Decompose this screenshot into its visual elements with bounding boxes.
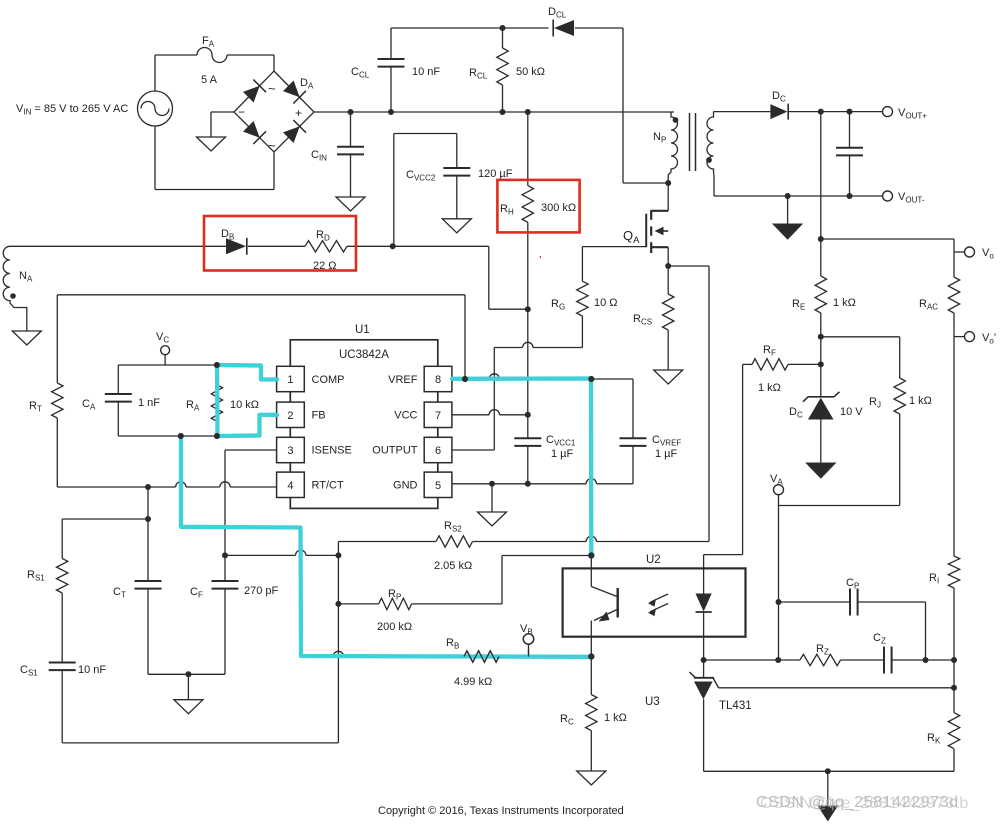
bridge diode bottom-left bbox=[243, 121, 260, 138]
highlight VREF path bbox=[452, 379, 591, 557]
terminal VA bbox=[774, 485, 784, 495]
svg-text:Copyright © 2016, Texas Instru: Copyright © 2016, Texas Instruments Inco… bbox=[378, 805, 624, 817]
resistor RD bbox=[305, 241, 347, 252]
resistor RB bbox=[464, 651, 499, 662]
svg-text:10 V: 10 V bbox=[840, 406, 863, 418]
svg-text:1 µF: 1 µF bbox=[551, 448, 574, 460]
QA body arrow bbox=[663, 230, 669, 232]
wire output to RG bbox=[494, 347, 522, 349]
TL431 U3 bbox=[703, 660, 705, 678]
wire DC to VOUT+ bbox=[789, 111, 883, 113]
capacitor CVCC2 branch bbox=[393, 134, 395, 247]
ground bridge bbox=[197, 137, 226, 151]
wire CA RA bottom bbox=[118, 435, 259, 437]
diode DCL bbox=[554, 20, 574, 36]
highlight RA bbox=[215, 365, 220, 436]
wire FB divider down bbox=[180, 436, 182, 527]
svg-text:5 A: 5 A bbox=[201, 74, 218, 86]
transformer primary NP bbox=[668, 112, 677, 183]
stub Vo bbox=[954, 251, 965, 253]
svg-text:8: 8 bbox=[435, 374, 441, 386]
opto transistor bbox=[590, 568, 592, 586]
U1 pin 7 box bbox=[424, 402, 452, 427]
wire output sense bbox=[820, 112, 822, 239]
svg-text:~: ~ bbox=[268, 81, 276, 96]
svg-text:2.05 kΩ: 2.05 kΩ bbox=[434, 560, 472, 572]
QA gate bar bbox=[645, 214, 647, 248]
svg-text:3: 3 bbox=[287, 445, 293, 457]
wire RS1 top bbox=[62, 518, 148, 520]
bridge diode top-right bbox=[283, 81, 300, 98]
svg-text:VIN = 85 V to 265 V AC: VIN = 85 V to 265 V AC bbox=[16, 103, 128, 117]
winding NA bbox=[3, 246, 27, 331]
wire pin2 link bbox=[259, 414, 276, 416]
resistor RC bbox=[590, 657, 592, 695]
QA source bbox=[652, 246, 668, 248]
wire RZ rail bbox=[704, 659, 800, 661]
svg-text:RT/CT: RT/CT bbox=[312, 480, 344, 492]
opto light arrows bbox=[650, 594, 668, 602]
U1 pin 1 box bbox=[277, 366, 305, 391]
svg-text:GND: GND bbox=[393, 480, 418, 492]
ground CIN bbox=[336, 197, 365, 211]
capacitor output bbox=[849, 112, 851, 148]
U1 pin 4 box bbox=[277, 472, 305, 497]
diode DC bbox=[770, 104, 787, 119]
node RE bottom bbox=[818, 334, 824, 340]
resistor RJ bbox=[899, 337, 901, 378]
opto LED anode wire bbox=[742, 364, 744, 554]
highlight FB path bbox=[181, 436, 591, 657]
QA channel dashes bbox=[650, 210, 652, 220]
svg-text:‚: ‚ bbox=[539, 248, 541, 260]
zener DC 10V bbox=[808, 396, 834, 398]
transformer secondary bbox=[707, 112, 714, 196]
resistor RCL bbox=[502, 28, 504, 48]
capacitor CZ bbox=[883, 647, 885, 674]
svg-text:~: ~ bbox=[268, 138, 276, 153]
svg-text:1 nF: 1 nF bbox=[138, 397, 160, 409]
capacitor CA bbox=[117, 365, 119, 394]
ground CT CF bbox=[174, 700, 203, 714]
wire opto emitter bbox=[590, 637, 592, 657]
capacitor CCL bbox=[390, 28, 392, 59]
ground RC bbox=[577, 771, 606, 785]
svg-text:200 kΩ: 200 kΩ bbox=[377, 621, 412, 633]
wire QA source right bbox=[668, 265, 709, 267]
wire LED cathode down bbox=[703, 637, 705, 660]
svg-text:TL431: TL431 bbox=[719, 700, 752, 712]
capacitor CT bbox=[147, 487, 149, 519]
wire bridge bottom loop bbox=[273, 152, 275, 190]
wire bridge left to ground bbox=[211, 111, 234, 113]
wire HV rail bbox=[314, 111, 674, 113]
svg-text:50 kΩ: 50 kΩ bbox=[516, 66, 545, 78]
wire bottom right rail bbox=[704, 770, 954, 772]
wire ISENSE node bbox=[225, 554, 296, 556]
bridge diode bottom-right bbox=[283, 126, 300, 143]
wire VA node bbox=[779, 505, 900, 507]
terminal VB redraw bbox=[528, 649, 530, 657]
QA drain bbox=[667, 183, 669, 211]
optocoupler U2 box bbox=[563, 568, 746, 636]
ground bottom bbox=[827, 771, 829, 806]
svg-text:1 kΩ: 1 kΩ bbox=[604, 712, 627, 724]
resistor RS1 bbox=[61, 519, 63, 559]
red annotation box RH bbox=[497, 180, 579, 233]
stub Vo2 bbox=[954, 336, 965, 338]
resistor RF bbox=[743, 363, 752, 365]
svg-text:10 nF: 10 nF bbox=[78, 664, 106, 676]
highlight junction dots bbox=[214, 362, 220, 368]
wire fuse to bridge bbox=[227, 54, 274, 56]
ground RCS bbox=[654, 370, 683, 384]
bridge diode top-left bbox=[243, 86, 260, 103]
capacitor CVREF bbox=[632, 379, 634, 438]
terminal VC bbox=[161, 346, 170, 355]
resistor RH bbox=[527, 112, 529, 186]
resistor RT bbox=[56, 295, 58, 383]
wire RT/CT pin4 bbox=[57, 486, 175, 488]
wire snubber top rail bbox=[391, 27, 549, 29]
svg-text:2: 2 bbox=[287, 410, 293, 422]
highlight pin1 branch bbox=[217, 365, 277, 380]
svg-text:OSSIN@ice_2581442973tb: OSSIN@ice_2581442973tb bbox=[760, 795, 969, 812]
svg-text:U3: U3 bbox=[645, 696, 660, 708]
wire pin1 link bbox=[261, 365, 263, 379]
U1 pin 6 box bbox=[424, 437, 452, 462]
svg-text:1 kΩ: 1 kΩ bbox=[758, 382, 781, 394]
opto LED bbox=[703, 568, 705, 593]
wire DCL to transformer bbox=[575, 27, 623, 29]
svg-text:4: 4 bbox=[287, 480, 293, 492]
svg-text:−: − bbox=[238, 105, 245, 119]
resistor RB redraw bbox=[464, 651, 499, 662]
wire RT top bbox=[57, 294, 465, 296]
terminal VOUT- bbox=[883, 191, 893, 201]
svg-text:U1: U1 bbox=[355, 324, 370, 336]
wire VCC pin7 bbox=[452, 414, 489, 416]
wire zener top bbox=[820, 337, 822, 397]
primary phase dot bbox=[673, 117, 679, 123]
svg-text:10 Ω: 10 Ω bbox=[594, 297, 618, 309]
svg-text:OUTPUT: OUTPUT bbox=[372, 445, 418, 457]
svg-text:6: 6 bbox=[435, 445, 441, 457]
AC source VIN bbox=[138, 91, 173, 126]
resistor RA bbox=[216, 365, 218, 385]
resistor RK bbox=[948, 713, 959, 749]
red annotation box DB RD bbox=[204, 216, 356, 271]
resistor RCS bbox=[667, 266, 669, 294]
capacitor CVCC1 bbox=[527, 415, 529, 439]
svg-text:10 kΩ: 10 kΩ bbox=[230, 399, 259, 411]
wire ISENSE pin3 bbox=[225, 449, 277, 451]
svg-text:+: + bbox=[295, 106, 302, 120]
wire RH down to VCC bbox=[527, 309, 529, 415]
NA phase dot bbox=[10, 293, 16, 299]
ground zener bbox=[806, 463, 835, 478]
wire VOUT- rail bbox=[714, 195, 883, 197]
svg-text:ISENSE: ISENSE bbox=[312, 445, 352, 457]
svg-text:1 kΩ: 1 kΩ bbox=[833, 297, 856, 309]
svg-text:VCC: VCC bbox=[394, 410, 417, 422]
svg-text:Vo’: Vo’ bbox=[982, 332, 996, 346]
ground output bbox=[787, 196, 789, 224]
U1 pin 8 box bbox=[424, 366, 452, 391]
svg-text:1 µF: 1 µF bbox=[655, 448, 678, 460]
bridge DA diamond bbox=[234, 71, 314, 152]
wire CP branch bbox=[776, 599, 782, 605]
resistor RG bbox=[581, 247, 583, 282]
fuse FA bbox=[197, 48, 227, 63]
wire RP bbox=[335, 601, 341, 607]
TL431 ref wire bbox=[719, 687, 955, 689]
wire CA RA top bbox=[118, 364, 262, 366]
ground U1 bbox=[491, 484, 493, 512]
svg-text:UC3842A: UC3842A bbox=[339, 349, 389, 361]
svg-text:COMP: COMP bbox=[312, 374, 345, 386]
terminal VB bbox=[523, 634, 533, 644]
opto collector wire bbox=[590, 379, 592, 568]
QA gate wire bbox=[582, 246, 646, 248]
svg-text:VREF: VREF bbox=[388, 374, 418, 386]
wire zener to ground bbox=[820, 420, 822, 464]
wire GND pin5 bbox=[452, 483, 586, 485]
wire VA down bbox=[778, 506, 780, 661]
wire bottom left rail bbox=[62, 742, 338, 744]
transformer core bbox=[689, 113, 691, 171]
resistor RI bbox=[948, 556, 959, 588]
wire AC top to fuse bbox=[154, 55, 156, 91]
svg-text:10 nF: 10 nF bbox=[412, 66, 440, 78]
U1 pin 5 box bbox=[424, 472, 452, 497]
svg-text:300 kΩ: 300 kΩ bbox=[541, 202, 576, 214]
capacitor CIN bbox=[350, 112, 352, 147]
svg-text:1 kΩ: 1 kΩ bbox=[909, 395, 932, 407]
wire CT CF ground bbox=[148, 673, 225, 675]
diode DB bbox=[226, 238, 246, 254]
wire RS2 bbox=[337, 542, 339, 556]
highlight pin2 branch bbox=[216, 415, 277, 436]
wire VREF bbox=[452, 378, 489, 380]
svg-text:1: 1 bbox=[287, 374, 293, 386]
svg-text:5: 5 bbox=[435, 480, 441, 492]
wire RD to VCC feed bbox=[347, 245, 489, 247]
svg-text:4.99 kΩ: 4.99 kΩ bbox=[454, 676, 492, 688]
capacitor CF bbox=[224, 555, 226, 581]
op-amp U1 body bbox=[290, 340, 438, 509]
terminal Vo bbox=[965, 247, 975, 257]
resistor RAC bbox=[948, 277, 959, 313]
wire DB to RD bbox=[248, 245, 305, 247]
svg-text:270 pF: 270 pF bbox=[244, 585, 279, 597]
svg-text:FB: FB bbox=[312, 410, 326, 422]
U1 pin 2 box bbox=[277, 402, 305, 427]
wire secondary to DC bbox=[714, 111, 771, 113]
svg-text:U2: U2 bbox=[646, 554, 661, 566]
capacitor CS1 bbox=[49, 662, 76, 664]
svg-text:7: 7 bbox=[435, 410, 441, 422]
wire RB bbox=[301, 656, 334, 658]
U1 pin 3 box bbox=[277, 437, 305, 462]
terminal Vo2 bbox=[965, 332, 975, 342]
wire RI to RK bbox=[953, 660, 955, 713]
resistor RE bbox=[820, 239, 822, 276]
wire NA to DB bbox=[10, 245, 226, 247]
ground NA bbox=[12, 331, 41, 345]
svg-text:120 µF: 120 µF bbox=[478, 168, 513, 180]
secondary phase dot bbox=[706, 157, 712, 163]
capacitor CP bbox=[849, 589, 851, 616]
ground CVCC2 bbox=[442, 219, 471, 233]
terminal VOUT+ bbox=[883, 107, 893, 117]
